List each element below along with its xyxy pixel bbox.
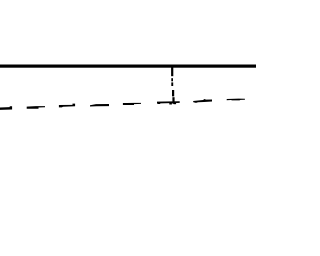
ceiling solid line xyxy=(0,65,256,68)
sloped dashed line: dash 1 xyxy=(0,106,12,110)
sloped dashed line: dash 6 (under drop line junction) xyxy=(157,101,180,104)
sloped dashed line: dash 3 xyxy=(59,104,75,108)
sloped dashed line: dash 8 xyxy=(227,99,245,101)
junction blob right xyxy=(174,103,177,104)
vertical dashed drop line: segment 3 xyxy=(171,82,173,86)
vertical dashed drop line: segment 1 (solid from ceiling) xyxy=(171,67,173,76)
sloped dashed line: dash 4 xyxy=(90,104,109,107)
vertical dashed drop line: segment 4 xyxy=(172,90,174,96)
vertical dashed drop line: segment 5 (crosses sloped dashed line) xyxy=(172,97,174,104)
sloped dashed line: dash 7 xyxy=(193,99,212,103)
sloped dashed line: dash 5 xyxy=(123,103,141,105)
vertical dashed drop line: segment 2 xyxy=(171,78,173,81)
sloped dashed line: dash 2 xyxy=(27,106,45,109)
junction blob left xyxy=(169,103,172,105)
